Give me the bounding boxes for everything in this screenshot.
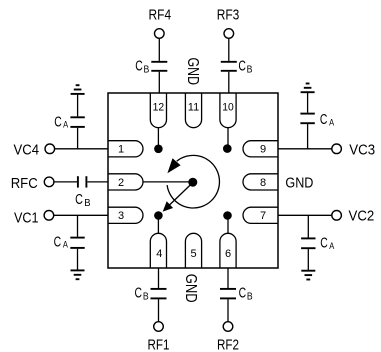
svg-text:2: 2: [118, 177, 124, 189]
svg-text:5: 5: [190, 248, 196, 260]
node RF2 internal dot: [223, 211, 232, 220]
svg-text:B: B: [144, 64, 150, 75]
ground (bottom right): [301, 271, 315, 280]
label CB (RF3): [238, 58, 252, 75]
svg-text:VC4: VC4: [14, 141, 40, 158]
capacitor CA (VC2): [301, 238, 315, 248]
wire CB to pin 10: [228, 72, 230, 93]
wire ground to CA (VC4): [77, 94, 79, 117]
wire CA to VC3 wire: [307, 124, 309, 149]
svg-text:C: C: [320, 112, 328, 128]
svg-text:A: A: [329, 117, 335, 128]
wire pin 4 to internal node: [157, 215, 159, 233]
label CA (VC3): [320, 112, 335, 128]
svg-text:C: C: [238, 58, 246, 74]
pin 7: [243, 207, 278, 223]
pin 8: [243, 174, 278, 190]
svg-text:A: A: [63, 120, 69, 131]
label CB (RFC): [75, 192, 91, 209]
wire VC4 terminal to pin 1: [55, 148, 108, 150]
terminal VC4: [45, 144, 55, 154]
label CB (RF4): [135, 58, 149, 75]
pin 2: [108, 174, 143, 190]
svg-text:VC3: VC3: [349, 141, 375, 158]
terminal RF4: [155, 29, 165, 39]
svg-text:GND: GND: [184, 58, 201, 86]
svg-text:11: 11: [188, 102, 200, 114]
node RF4 internal dot: [154, 145, 163, 154]
ground (top left, inverted): [71, 85, 85, 94]
wire CA to ground (VC2): [307, 249, 309, 271]
svg-text:10: 10: [222, 102, 234, 114]
wire CB to RF1 terminal: [158, 299, 160, 321]
capacitor CB (RF2): [220, 289, 236, 299]
terminal RF1: [154, 322, 164, 332]
node switch common dot: [188, 178, 197, 187]
wire VC1 terminal to pin 3: [54, 214, 108, 216]
label CA (VC4): [54, 115, 68, 131]
terminal VC2: [332, 211, 342, 221]
wire CB to pin 2: [87, 181, 108, 183]
pin 4: [150, 233, 166, 268]
capacitor CA (VC1): [70, 238, 84, 248]
pin 6: [220, 233, 236, 268]
wire CA to ground (VC1): [77, 249, 79, 271]
ground (top right, inverted): [301, 84, 315, 93]
terminal RF3: [224, 29, 234, 39]
switch SW1 rotor circle: [167, 155, 219, 208]
svg-text:C: C: [320, 236, 328, 252]
svg-text:RF3: RF3: [217, 7, 240, 24]
pin 1: [108, 141, 143, 157]
svg-text:3: 3: [118, 210, 124, 222]
svg-text:9: 9: [260, 144, 266, 156]
svg-text:B: B: [247, 292, 253, 303]
wire RF4 terminal to CB: [158, 38, 160, 61]
wire pin 9 to VC3 terminal: [278, 148, 332, 150]
wire pin 12 to internal node: [157, 128, 159, 149]
label CA (VC1): [54, 235, 69, 251]
svg-text:GND: GND: [285, 175, 313, 192]
label CB (RF1): [135, 286, 149, 303]
svg-text:B: B: [143, 292, 149, 303]
pin 3: [108, 207, 143, 223]
svg-text:C: C: [135, 58, 143, 74]
wire VC2 to CA: [307, 215, 309, 237]
capacitor CB (RFC series): [78, 176, 87, 187]
svg-text:C: C: [75, 192, 83, 208]
capacitor CB (RF3): [221, 62, 237, 71]
wire ground to CA (VC3): [307, 92, 309, 113]
svg-text:B: B: [84, 198, 91, 209]
capacitor CA (VC4): [70, 117, 84, 127]
wire RF3 terminal to CB: [228, 38, 230, 61]
svg-text:C: C: [54, 235, 62, 251]
wire pin 6 to internal node: [227, 215, 229, 233]
pin 12: [150, 93, 166, 128]
terminal VC1: [44, 211, 54, 221]
svg-text:RFC: RFC: [11, 175, 38, 192]
svg-text:B: B: [247, 64, 253, 75]
capacitor CA (VC3): [300, 114, 314, 124]
wire pin 6 to CB (RF2): [227, 268, 229, 288]
svg-text:1: 1: [118, 144, 124, 156]
svg-text:8: 8: [260, 177, 266, 189]
svg-text:C: C: [135, 286, 143, 302]
label CB (RF2): [239, 286, 253, 303]
pin 5: [185, 233, 201, 268]
svg-text:RF1: RF1: [148, 336, 170, 352]
svg-text:A: A: [63, 240, 69, 251]
switch SW1 wiper arm: [163, 182, 194, 212]
svg-text:RF2: RF2: [217, 336, 239, 352]
svg-text:C: C: [239, 286, 247, 302]
wire CA to VC4 wire: [77, 128, 79, 149]
wire CB to pin 12: [158, 72, 160, 93]
svg-text:RF4: RF4: [149, 7, 172, 24]
wire pin 2 to switch common: [143, 181, 194, 183]
svg-text:C: C: [54, 115, 62, 131]
label CA (VC2): [320, 236, 335, 252]
svg-text:A: A: [329, 241, 335, 252]
svg-text:12: 12: [153, 102, 165, 114]
wire VC1 to CA: [77, 215, 79, 236]
pin 9: [243, 141, 278, 157]
pin 11: [185, 93, 201, 128]
pin 10: [220, 93, 236, 128]
IC U1 body: [108, 93, 278, 268]
capacitor CB (RF1): [151, 289, 167, 299]
terminal RF2: [223, 322, 233, 332]
wire pin 7 to VC2 terminal: [278, 214, 332, 216]
capacitor CB (RF4): [151, 62, 167, 71]
node RF1 internal dot: [154, 211, 163, 220]
svg-text:7: 7: [260, 210, 266, 222]
wire RFC terminal to CB: [54, 181, 77, 183]
node RF3 internal dot: [223, 144, 232, 153]
wire pin 4 to CB (RF1): [158, 268, 160, 288]
wire CB to RF2 terminal: [227, 299, 229, 321]
svg-text:4: 4: [156, 248, 162, 260]
terminal RFC: [44, 177, 54, 187]
svg-text:6: 6: [225, 248, 231, 260]
ground (bottom left): [71, 270, 85, 279]
wire pin 10 to internal node: [227, 128, 229, 149]
svg-text:VC2: VC2: [349, 208, 375, 225]
svg-text:GND: GND: [182, 274, 199, 303]
terminal VC3: [332, 144, 342, 154]
switch SW1 rotation arrowhead: [167, 158, 180, 173]
svg-text:VC1: VC1: [14, 209, 39, 226]
